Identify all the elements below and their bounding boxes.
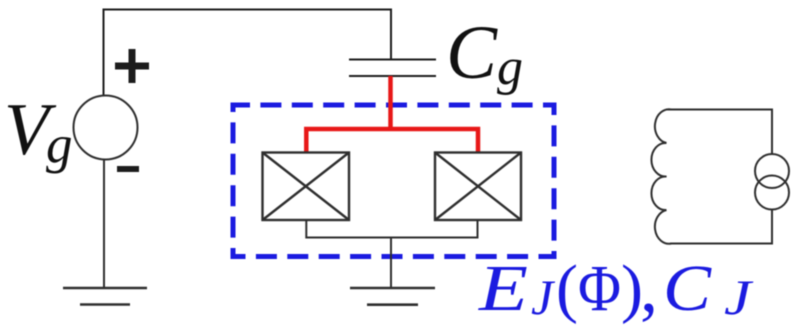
- svg-text:g: g: [497, 39, 523, 96]
- label V_g: [4, 89, 73, 174]
- inductor L: [651, 109, 671, 244]
- josephson junction JJ1: [263, 153, 350, 221]
- svg-text:C: C: [446, 11, 498, 95]
- wire red from Cg to SQUID: [306, 76, 478, 152]
- svg-text:,: ,: [640, 247, 658, 327]
- current source circles: [755, 154, 789, 210]
- ground left: [63, 288, 147, 305]
- wire right loop: [666, 110, 772, 244]
- minus sign: [117, 166, 139, 172]
- ground right: [350, 288, 435, 305]
- blue dashed box: [233, 105, 554, 257]
- label C_g: [446, 11, 523, 96]
- wire Vg to ground: [103, 160, 105, 289]
- svg-text:C: C: [663, 252, 712, 325]
- svg-text:E: E: [478, 252, 528, 325]
- svg-text:J: J: [531, 269, 556, 325]
- voltage source V_g: [74, 96, 138, 160]
- wire top from Vg to Cg: [104, 10, 392, 96]
- svg-text:(: (: [556, 252, 578, 325]
- svg-text:g: g: [46, 116, 73, 174]
- josephson junction JJ2: [435, 153, 521, 221]
- wire bottom of SQUID: [306, 220, 477, 288]
- svg-text:Φ: Φ: [578, 252, 621, 325]
- svg-text:J: J: [724, 269, 754, 325]
- label E_J(Phi),C_J: [478, 247, 755, 327]
- capacitor C_g: [349, 60, 436, 77]
- plus sign: [115, 49, 149, 83]
